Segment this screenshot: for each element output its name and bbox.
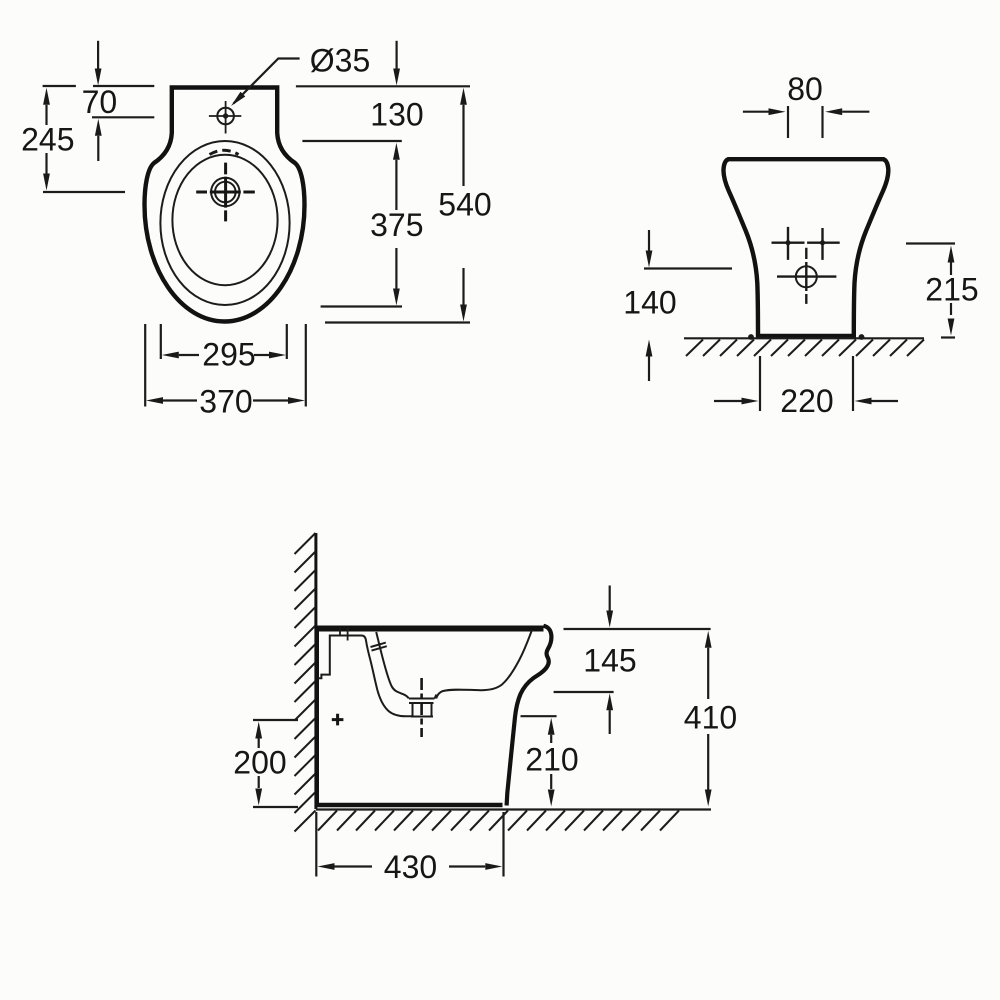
dim 410: up-arrow: [705, 631, 712, 648]
dim 70: lower up-arrow: [95, 119, 102, 136]
side view fixing cross mark: [332, 714, 344, 726]
svg-text:145: 145: [583, 643, 636, 679]
svg-text:295: 295: [202, 337, 255, 373]
svg-text:245: 245: [21, 122, 74, 158]
dim 140: down-arrow: [648, 230, 650, 252]
svg-text:130: 130: [370, 97, 423, 133]
svg-text:430: 430: [384, 849, 437, 885]
dim 220: right arrow: [855, 398, 872, 405]
dim 140: up-arrow: [646, 340, 653, 357]
side view wall hatching: [295, 533, 316, 832]
svg-text:215: 215: [925, 272, 978, 308]
side view body top rim (thick): [316, 626, 544, 632]
top view faucet hole O35: [217, 108, 234, 125]
top view drain circle outer: [211, 178, 239, 206]
svg-text:375: 375: [370, 207, 423, 243]
dim 80: left arrow: [743, 111, 769, 113]
dim 540: down-arrow: [462, 268, 464, 305]
side view drain assembly: [409, 695, 436, 717]
side view deck and bowl back outline: [319, 636, 412, 717]
rear view drain crosshair: [777, 248, 836, 304]
top view drain crosshair: [196, 163, 255, 222]
dim 540: up-arrow: [460, 88, 467, 105]
dim 215: down-arrow: [950, 303, 952, 315]
svg-text:220: 220: [780, 383, 833, 419]
side view bowl back inner line: [376, 632, 409, 699]
dim 295: extension lines: [160, 324, 162, 359]
dim 70: line at y117: [92, 116, 154, 118]
dim 370: left arrow: [146, 397, 163, 404]
rear view ground hatching: [686, 340, 924, 357]
dim 430: extension lines: [315, 812, 317, 877]
dim 145: up-arrow: [606, 693, 613, 710]
dim 200: up-arrow: [255, 722, 262, 739]
svg-text:200: 200: [233, 745, 286, 781]
rear view drain circle: [796, 266, 817, 287]
dim 70: left tick at y86: [43, 85, 76, 87]
svg-text:410: 410: [684, 699, 737, 735]
dim 130: top extension line y86: [296, 85, 470, 87]
dim 295: right arrow: [254, 354, 270, 356]
side view wall line: [314, 533, 317, 809]
dim 80: center ticks: [787, 106, 789, 138]
top view drain circle inner: [215, 182, 236, 203]
dim 410: down-arrow: [707, 734, 709, 790]
dim 130: down-arrow: [396, 41, 398, 69]
leader line for O35: [234, 59, 300, 104]
side view body front profile (thick S-curve): [507, 626, 552, 806]
dim 215: bottom tick: [941, 336, 955, 338]
dim 245: bottom tick at y192: [43, 191, 125, 193]
side view drain dashed centerline: [420, 678, 423, 737]
dim 200: bottom tick: [253, 806, 298, 808]
svg-text:80: 80: [787, 71, 823, 107]
top view basin oval: [172, 155, 277, 285]
dim 200: top tick: [253, 719, 298, 721]
dim 375: bottom line y306: [321, 305, 402, 307]
dim 130: line y141: [302, 140, 401, 142]
dim 375: up-arrow: [393, 143, 400, 160]
dim 215: top line: [906, 242, 955, 244]
svg-text:Ø35: Ø35: [310, 43, 370, 79]
dim 370: right arrow: [253, 399, 288, 401]
dim 540: bottom extension line y322: [325, 321, 470, 323]
dim 210: top tick: [521, 715, 557, 717]
svg-text:140: 140: [623, 285, 676, 321]
side view faucet hole ticks on deck: [340, 628, 348, 641]
dim 145: down-arrow: [609, 586, 611, 612]
top view outer outline: [145, 88, 305, 322]
rear view left fixing hole: [785, 240, 790, 245]
svg-text:70: 70: [82, 84, 118, 120]
dim 220: left arrow: [714, 400, 742, 402]
dim 245: up-arrow: [43, 88, 50, 105]
side view bowl inner front line: [436, 630, 532, 699]
side view body bottom edge: [316, 803, 503, 807]
dim 215: up-arrow: [948, 246, 955, 263]
top view rim oval: [160, 141, 289, 305]
top view dashed arc: [210, 150, 239, 154]
rear view ground line: [684, 337, 924, 339]
dim 200: down-arrow: [258, 776, 260, 788]
svg-text:370: 370: [199, 384, 252, 420]
dim 145: bottom line: [554, 691, 614, 693]
side view break mark (double slash): [371, 643, 387, 651]
rear view right fixing hole: [820, 240, 825, 245]
rear view body outline: [723, 159, 888, 336]
dim 220: extension lines: [759, 356, 761, 411]
dim 80: right arrow: [825, 108, 842, 115]
rear view ground junction dots: [748, 334, 754, 340]
dim 70: upper down-arrow: [97, 41, 99, 69]
side view body back edge: [315, 626, 319, 806]
dim 430: left arrow: [318, 863, 335, 870]
dim 370: extension lines: [144, 324, 146, 407]
svg-text:540: 540: [438, 187, 491, 223]
dim 295: left arrow: [162, 352, 179, 359]
side view floor hatching: [318, 811, 679, 831]
top view faucet hole crosshair: [209, 101, 241, 134]
dim 245: down-arrow: [45, 153, 47, 174]
dim 430: right arrow: [449, 865, 485, 867]
side view floor line: [316, 808, 711, 810]
dim 70: mid line at y86: [93, 85, 154, 87]
svg-text:210: 210: [525, 741, 578, 777]
dim 210: up-arrow: [548, 718, 555, 735]
dim 210: down-arrow: [550, 774, 552, 789]
dim 145: top extension line: [564, 628, 711, 630]
dim 375: down-arrow: [395, 248, 397, 289]
dim 140: line y268: [644, 267, 732, 269]
